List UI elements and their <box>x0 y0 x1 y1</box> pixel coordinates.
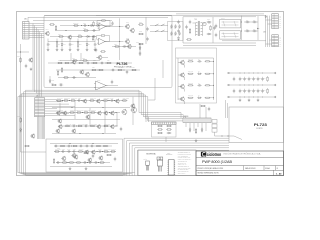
diode D110 <box>197 73 202 75</box>
junction <box>212 72 215 75</box>
resistor R150 <box>63 100 69 101</box>
transistor Q135 <box>84 150 88 155</box>
wire <box>184 65 186 68</box>
wire <box>39 32 41 97</box>
wire <box>148 117 150 122</box>
bus wire <box>18 97 135 173</box>
svg-text:R157 10N: R157 10N <box>84 110 90 112</box>
capacitor C150 <box>261 77 263 81</box>
capacitor C128 <box>177 29 179 33</box>
DIP IC package drawing <box>168 160 176 176</box>
junction <box>79 132 82 135</box>
capacitor C143 <box>243 89 245 93</box>
junction <box>81 99 84 102</box>
resistor R183 <box>195 128 196 134</box>
wire <box>184 89 186 92</box>
svg-text:22K: 22K <box>88 43 90 45</box>
resistor R178 <box>157 125 163 126</box>
svg-text:CN106: CN106 <box>184 116 189 118</box>
transistor Q141 <box>98 155 103 160</box>
svg-text:C165: C165 <box>62 149 65 151</box>
transistor Q124 <box>62 111 66 116</box>
arrow mark <box>257 28 259 29</box>
resistor R153 <box>103 100 109 101</box>
wire <box>27 17 29 21</box>
polarity slash <box>174 27 176 28</box>
resistor R164 <box>72 145 78 146</box>
node <box>228 96 230 98</box>
svg-text:10M: 10M <box>259 77 261 79</box>
svg-text:R105: R105 <box>78 34 81 36</box>
wire <box>205 123 207 131</box>
svg-text:R112: R112 <box>79 60 82 62</box>
svg-text:PL726: PL726 <box>117 62 128 66</box>
junction <box>252 96 255 99</box>
junction <box>75 125 78 128</box>
capacitor C116 <box>95 48 97 52</box>
wire <box>38 117 40 139</box>
node <box>228 84 230 86</box>
wire <box>96 57 98 59</box>
transistor Q132 <box>110 124 114 129</box>
wire <box>45 108 57 110</box>
junction <box>243 72 246 75</box>
wire <box>212 17 214 43</box>
junction <box>65 29 68 32</box>
resistor R122 <box>57 70 58 76</box>
capacitor C158 <box>84 125 88 127</box>
junction <box>257 96 260 99</box>
svg-text:10M: 10M <box>254 89 256 91</box>
junction <box>105 62 108 65</box>
wire <box>145 17 147 44</box>
transistor Q105 <box>85 72 90 77</box>
wire <box>49 76 51 79</box>
junction <box>239 72 242 75</box>
junction <box>248 84 251 87</box>
junction <box>113 99 116 102</box>
resistor R160 <box>77 125 83 126</box>
Ciclotron logo mark <box>201 152 206 157</box>
transistor Q115 <box>57 119 62 124</box>
title block divider <box>243 166 245 171</box>
svg-text:330R: 330R <box>79 43 82 45</box>
wire <box>50 143 118 145</box>
svg-text:10M: 10M <box>254 77 256 79</box>
wire <box>52 133 116 135</box>
wire <box>150 25 168 27</box>
wire <box>210 97 214 99</box>
wire <box>45 103 69 105</box>
resistor R134 <box>186 39 192 40</box>
capacitor C161 <box>67 145 71 147</box>
svg-text:R107: R107 <box>72 58 75 60</box>
wire <box>56 100 126 102</box>
resistor R101 <box>55 25 56 31</box>
junction <box>101 150 104 153</box>
bus wire <box>24 92 184 118</box>
svg-text:Z101: Z101 <box>52 80 55 82</box>
wire <box>29 23 44 25</box>
wire <box>266 43 272 45</box>
resistor R149 <box>56 100 62 101</box>
wire <box>139 44 141 56</box>
junction <box>61 111 64 114</box>
wire <box>61 47 63 48</box>
wire <box>47 47 49 48</box>
switch contact <box>161 30 165 32</box>
resistor R127 <box>92 35 93 41</box>
svg-text:PL723: PL723 <box>254 123 267 127</box>
wire <box>55 30 100 32</box>
wire <box>89 108 91 126</box>
svg-text:R169 100N: R169 100N <box>104 149 110 151</box>
transistor Q130 <box>58 124 62 129</box>
bus wire <box>132 145 229 175</box>
transistor Q104 <box>79 69 84 74</box>
diode D105 <box>49 79 51 84</box>
wire <box>69 47 71 48</box>
resistor R162 <box>103 125 109 126</box>
svg-text:R149 15K: R149 15K <box>57 98 63 100</box>
wire <box>37 30 39 96</box>
capacitor C169 <box>56 161 60 163</box>
capacitor C126 <box>178 31 180 35</box>
TO-92 package drawing <box>146 161 150 171</box>
op-amp IC103 <box>97 38 106 45</box>
capacitor C108 <box>86 62 90 64</box>
transistor Q139 <box>61 156 66 161</box>
wire <box>182 17 184 43</box>
svg-text:R116: R116 <box>92 67 95 69</box>
transistor Q109 <box>125 39 130 44</box>
resistor R113 <box>78 62 84 63</box>
polarity slash <box>170 27 172 28</box>
svg-text:R104: R104 <box>58 34 61 36</box>
svg-text:R152 47R: R152 47R <box>90 98 96 100</box>
title block divider <box>263 166 265 171</box>
diode D115 <box>201 128 203 133</box>
junction <box>261 96 264 99</box>
capacitor C152 <box>233 77 235 81</box>
junction <box>243 84 246 87</box>
switch contact <box>155 24 159 26</box>
bus wire <box>22 93 129 174</box>
connector CN106 <box>183 118 211 122</box>
wire <box>145 115 147 122</box>
junction <box>70 145 73 148</box>
junction <box>248 96 251 99</box>
wire <box>265 16 267 47</box>
junction <box>91 62 94 65</box>
wire <box>60 25 112 27</box>
wire <box>45 105 75 107</box>
transistor Q101 <box>45 31 50 36</box>
capacitor C104 <box>92 35 96 37</box>
wire <box>29 31 44 33</box>
resistor R175 <box>83 152 89 153</box>
transistor Q138 <box>87 158 91 163</box>
transistor Q118 <box>28 57 33 62</box>
title block row line <box>196 165 284 167</box>
resistor R117 <box>91 69 97 70</box>
capacitor C120 <box>122 45 126 47</box>
capacitor C154 <box>25 64 27 68</box>
capacitor C159 <box>120 127 122 131</box>
resistor R129 <box>138 24 144 25</box>
wire <box>52 107 130 109</box>
junction <box>212 96 215 99</box>
transistor Q121 <box>96 99 100 104</box>
svg-text:R162: R162 <box>17 116 20 118</box>
diode D107 <box>178 36 180 41</box>
connector CN102 <box>272 14 279 29</box>
wire <box>105 41 124 43</box>
svg-text:1K: 1K <box>49 43 51 45</box>
junction <box>68 99 71 102</box>
svg-text:R160 100N: R160 100N <box>78 124 84 126</box>
resistor R173 <box>76 162 82 163</box>
svg-text:R172: R172 <box>57 148 60 150</box>
resistor R157 <box>83 112 89 113</box>
wire <box>94 39 96 43</box>
capacitor C167 <box>72 150 76 152</box>
resistor R181 <box>166 129 172 130</box>
sense box <box>152 122 177 137</box>
junction <box>115 111 118 114</box>
transistor Q103 <box>72 60 76 65</box>
diode D102 <box>86 36 91 38</box>
wire <box>148 99 155 101</box>
resistor R169 <box>103 151 109 152</box>
polarity slash <box>178 27 180 28</box>
resistor R133 <box>189 28 190 34</box>
capacitor C106 <box>69 42 71 46</box>
capacitor C103 <box>92 29 96 31</box>
connector CN103 <box>272 35 279 47</box>
bus wire <box>127 141 229 176</box>
transistor Q110 <box>97 55 102 60</box>
resistor R172 <box>69 162 75 163</box>
wire <box>52 119 120 121</box>
junction <box>257 72 260 75</box>
svg-text:R111: R111 <box>58 60 61 62</box>
resistor R124 <box>101 20 107 21</box>
junction <box>243 96 246 99</box>
junction <box>71 106 74 109</box>
svg-text:C157: C157 <box>72 124 75 126</box>
resistor R125 <box>100 35 106 36</box>
resistor R170 <box>110 151 116 152</box>
capacitor C139 <box>197 84 201 86</box>
wire <box>33 20 112 22</box>
wire <box>102 57 108 59</box>
svg-text:C167: C167 <box>73 149 76 151</box>
svg-text:R134: R134 <box>208 22 211 24</box>
junction <box>87 24 90 27</box>
capacitor C114 <box>111 80 113 84</box>
wire <box>96 15 172 17</box>
transistor Q120 <box>82 99 86 104</box>
relay RL102 detail <box>222 32 239 34</box>
wire <box>178 62 181 64</box>
wire <box>35 28 37 94</box>
wire <box>104 100 106 133</box>
svg-text:R114: R114 <box>107 60 110 62</box>
transistor Q106 <box>127 44 132 49</box>
wire <box>56 69 140 71</box>
junction <box>257 84 260 87</box>
wire <box>69 39 71 43</box>
transistor Q140 <box>73 154 78 159</box>
junction <box>19 51 22 54</box>
wire <box>201 123 203 129</box>
wire <box>50 36 96 38</box>
capacitor C175 <box>208 107 210 111</box>
resistor R165 <box>96 145 102 146</box>
resistor R174 <box>99 162 105 163</box>
resistor R155 <box>69 112 75 113</box>
resistor R163 <box>60 145 66 146</box>
resistor R106 <box>77 36 83 37</box>
component block <box>212 120 217 124</box>
capacitor C125 <box>174 31 176 35</box>
wire <box>176 13 264 15</box>
wire <box>225 100 227 118</box>
resistor R102 <box>49 24 55 25</box>
svg-text:R154 680R: R154 680R <box>123 98 129 100</box>
wire <box>210 84 214 86</box>
capacitor C162 <box>79 145 83 147</box>
bus wire <box>135 148 229 176</box>
svg-text:C155: C155 <box>78 98 81 100</box>
ground <box>86 48 89 51</box>
svg-text:10M: 10M <box>245 89 247 91</box>
capacitor C151 <box>261 89 263 93</box>
capacitor C173 <box>92 154 94 158</box>
wire <box>162 60 164 78</box>
driver section box <box>176 48 217 103</box>
svg-text:Q104: Q104 <box>126 22 129 24</box>
svg-text:EM REPOUSO SEM: EM REPOUSO SEM <box>178 169 189 171</box>
svg-text:R124: R124 <box>139 21 142 23</box>
ground <box>47 48 50 51</box>
capacitor C171 <box>88 161 92 163</box>
wire <box>39 117 41 139</box>
capacitor C107 <box>94 42 96 46</box>
wire <box>183 42 256 44</box>
wire <box>77 39 79 43</box>
wire <box>183 44 256 46</box>
transistor Q123 <box>56 111 60 116</box>
capacitor C115 <box>111 21 113 25</box>
junction <box>86 161 89 164</box>
ground <box>195 139 198 142</box>
transistor Q136 <box>91 150 95 155</box>
resistor R141 <box>205 85 211 86</box>
wire <box>116 112 118 126</box>
resistor R131 <box>138 43 144 44</box>
feedback loop wire <box>105 36 110 42</box>
transistor Q112 <box>180 72 185 77</box>
wire <box>210 73 214 75</box>
capacitor C164 <box>90 145 94 147</box>
wire <box>229 96 275 98</box>
feedback loop wire <box>97 36 101 40</box>
wire <box>267 16 269 47</box>
junction <box>81 111 84 114</box>
capacitor C134 <box>245 21 249 23</box>
wire <box>37 117 39 139</box>
relay RL102 detail <box>222 35 239 37</box>
capacitor C123 <box>178 24 180 28</box>
svg-text:10M: 10M <box>250 89 252 91</box>
wire <box>40 117 42 139</box>
wire <box>183 16 256 18</box>
svg-text:CN2: CN2 <box>36 96 39 98</box>
wire <box>56 162 110 164</box>
wire <box>86 39 88 43</box>
relay RL102 detail <box>234 32 236 38</box>
TO-220 package drawing <box>157 157 163 172</box>
resistor R152 <box>89 100 95 101</box>
relay RL102 detail <box>223 32 225 38</box>
diode D114 <box>189 128 191 133</box>
bus wire <box>18 97 183 121</box>
diode D106 <box>139 46 141 51</box>
wire <box>244 30 258 32</box>
capacitor C129 <box>185 25 187 29</box>
junction <box>61 99 64 102</box>
transistor Q137 <box>71 153 75 158</box>
svg-text:R174: R174 <box>85 150 88 152</box>
capacitor C112 <box>72 76 76 78</box>
wire <box>44 117 46 139</box>
svg-text:R101 10K: R101 10K <box>73 23 79 25</box>
bus wire <box>124 138 229 175</box>
resistor R167 <box>54 151 60 152</box>
capacitor C131 <box>215 33 217 37</box>
wire <box>29 33 44 35</box>
capacitor C133 <box>213 26 215 30</box>
feedback loop wire <box>97 21 101 25</box>
svg-text:10M: 10M <box>259 89 261 91</box>
transistor Q111 <box>180 60 185 65</box>
capacitor C124 <box>170 31 172 35</box>
wire <box>213 58 215 100</box>
junction <box>96 150 99 153</box>
wire <box>205 107 207 118</box>
wire <box>185 123 187 127</box>
ground <box>77 48 80 51</box>
diode D111 <box>197 97 202 99</box>
resistor R119 <box>117 69 123 70</box>
junction <box>97 69 100 72</box>
svg-text:10M: 10M <box>263 77 265 79</box>
wire <box>197 123 199 127</box>
wire <box>199 104 201 118</box>
wire <box>257 16 259 40</box>
svg-text:02: 02 <box>277 168 279 170</box>
transistor Q125 <box>97 111 101 116</box>
svg-text:R142 47R: R142 47R <box>188 83 193 85</box>
resistor R114 <box>92 62 98 63</box>
wire <box>54 145 112 147</box>
junction <box>123 69 126 72</box>
resistor R132 <box>114 46 120 47</box>
capacitor C172 <box>94 161 98 163</box>
svg-text:1 - 40: 1 - 40 <box>276 172 282 175</box>
